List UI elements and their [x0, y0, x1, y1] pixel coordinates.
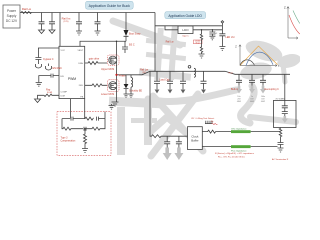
title ldo [165, 12, 206, 19]
ground gray arrow ck2 [174, 148, 183, 161]
ground gray arrow ck1 [163, 148, 184, 161]
ground u2 [46, 64, 52, 71]
capacitor bypass C [35, 48, 60, 103]
node phase [115, 74, 117, 76]
svg-text:Rail Lw: Rail Lw [166, 41, 174, 44]
inductor bead [188, 66, 195, 78]
wire FB drops [71, 99, 85, 119]
capacitor C1 [39, 13, 45, 31]
svg-text:Power: Power [7, 9, 17, 13]
svg-text:DRL: DRL [79, 85, 84, 87]
graph B axes [239, 45, 277, 67]
svg-text:EN: EN [61, 76, 64, 78]
svg-text:AC Termination R: AC Termination R [272, 158, 289, 161]
capacitor ck2 [176, 136, 182, 147]
svg-text:DRH: DRH [78, 63, 83, 65]
svg-text:Application Guide LDO: Application Guide LDO [168, 14, 202, 18]
ring test comb [205, 121, 212, 124]
label noise box [193, 40, 202, 44]
svg-text:VCC: VCC [61, 50, 66, 52]
power supply box [3, 5, 20, 28]
svg-text:0603: 0603 [250, 101, 254, 103]
wire: VCC drop [59, 13, 61, 47]
capacitor C3 [76, 13, 82, 32]
ground gray arrows bank2 [236, 86, 266, 94]
ground [39, 30, 45, 34]
WATERMARK [109, 21, 302, 156]
resistor gate R high [85, 62, 108, 87]
inductor L1 [129, 75, 134, 98]
transistor Q1 upper MOSFET [107, 55, 119, 65]
svg-text:DC 12V: DC 12V [6, 19, 18, 23]
wire source to ground [116, 92, 118, 103]
ground [95, 31, 101, 35]
curve triangle orange [240, 46, 278, 66]
wire: 12V rail [20, 12, 155, 14]
clock buffer U3 [188, 127, 203, 150]
capacitor ck1 [164, 136, 170, 147]
svg-text:Rs: Rs [211, 121, 213, 123]
svg-text:R set: R set [196, 41, 200, 44]
svg-text:Input C: Input C [182, 35, 189, 38]
svg-text:EN R&C: EN R&C [53, 67, 63, 70]
capacitor C4 [95, 13, 101, 32]
capacitor bootstrap [122, 41, 128, 53]
ground top right [109, 104, 115, 109]
wire LDO out [193, 30, 222, 58]
curve hump blue [246, 52, 273, 65]
capacitor C EN [39, 74, 59, 83]
svg-text:Load Cap: Load Cap [160, 79, 171, 81]
resistor term [278, 128, 284, 149]
curve green [293, 11, 300, 24]
capacitor bank group2 [236, 74, 266, 86]
svg-text:Rail: Rail [229, 72, 233, 74]
svg-text:bypass C: bypass C [43, 58, 54, 61]
wire LDO feed [155, 13, 222, 72]
power supply text [6, 9, 18, 23]
ground [36, 83, 42, 87]
svg-text:0402: 0402 [261, 101, 265, 103]
svg-text:gate drive: gate drive [89, 58, 100, 61]
svg-text:Rs + GTL R = Z0 (50 Ohm): Rs + GTL R = Z0 (50 Ohm) [218, 157, 245, 159]
svg-text:LED Vcc: LED Vcc [226, 36, 236, 39]
comp row2 [62, 119, 105, 131]
svg-text:BS C: BS C [129, 44, 135, 47]
svg-text:VBST: VBST [77, 50, 83, 52]
pcb trace green1 [231, 130, 251, 133]
wire clock feed [150, 71, 212, 147]
op-amp U1 PWM controller [59, 46, 85, 98]
svg-text:Buffer: Buffer [191, 139, 198, 143]
transistor Q2 lower MOSFET [107, 80, 119, 92]
svg-text:XO 50MHz: XO 50MHz [276, 99, 285, 101]
svg-text:Type 3: Type 3 [61, 138, 69, 140]
capacitor out1 [209, 30, 215, 36]
ground gray arrow xo [282, 116, 288, 123]
svg-text:Phase: Phase [119, 75, 126, 78]
svg-text:R (Series) = R(pull R) + GTL i: R (Series) = R(pull R) + GTL impedance [215, 152, 255, 155]
node diamond [219, 21, 225, 51]
red series R marker [212, 123, 218, 125]
svg-text:Rail Lw: Rail Lw [22, 7, 32, 11]
resistor Rsp [38, 94, 60, 99]
svg-text:Rail Im: Rail Im [62, 17, 71, 21]
curve red [289, 15, 300, 34]
svg-text:Z: Z [284, 6, 286, 10]
ground triangles [155, 90, 206, 94]
svg-text:PWM: PWM [68, 77, 76, 81]
title buck [86, 1, 134, 9]
red dashed box compensation [57, 112, 111, 156]
fuse F1 on rail [21, 12, 32, 14]
ground [35, 99, 41, 103]
wire drain drop [116, 41, 118, 56]
comp row1 [62, 117, 105, 121]
svg-text:(ILIM): (ILIM) [47, 92, 53, 94]
wire clk out1 [202, 128, 283, 153]
svg-text:Bulk C: Bulk C [231, 88, 238, 91]
svg-text:Lower MOS: Lower MOS [101, 93, 115, 96]
oscillator XO box [274, 74, 297, 127]
svg-text:ILIM: ILIM [61, 95, 65, 97]
svg-text:Compensation: Compensation [61, 140, 77, 143]
capacitor C2 [49, 13, 55, 31]
ground [76, 31, 82, 35]
svg-text:PCL impedance: PCL impedance [231, 150, 247, 152]
ground [35, 64, 41, 68]
svg-text:GTL impedance: GTL impedance [231, 128, 247, 130]
ground [49, 30, 55, 34]
svg-text:0805: 0805 [237, 101, 241, 103]
ground [82, 149, 88, 153]
svg-text:(5V): (5V) [142, 72, 146, 74]
wire VBST [80, 13, 129, 56]
graph A axes [287, 7, 298, 40]
diode bootstrap [125, 13, 127, 31]
voltage regulator U2 LDO [178, 26, 193, 34]
ground [112, 102, 119, 106]
capacitor xo [282, 100, 288, 116]
svg-text:(12V): (12V) [64, 21, 69, 23]
diode SBD [124, 75, 129, 98]
svg-text:Boot Strap: Boot Strap [129, 33, 141, 36]
wire clk out2 [202, 146, 277, 148]
resistor comp vertical [84, 129, 87, 149]
svg-text:COMP: COMP [61, 92, 68, 94]
svg-text:Decoupling C: Decoupling C [265, 88, 280, 91]
svg-text:Application Guide for Buck: Application Guide for Buck [89, 4, 130, 8]
svg-text:Supply: Supply [7, 14, 17, 18]
pcb trace green2 [231, 145, 251, 148]
svg-text:Upper MOS: Upper MOS [101, 68, 115, 71]
resistor gate R low [85, 84, 108, 87]
svg-text:LDO: LDO [182, 28, 189, 32]
capacitor bank group1 [154, 71, 207, 89]
curve hump black [240, 60, 255, 65]
cap values text [237, 96, 266, 103]
resistor divider R1 [200, 30, 202, 54]
wire phase [117, 64, 291, 80]
